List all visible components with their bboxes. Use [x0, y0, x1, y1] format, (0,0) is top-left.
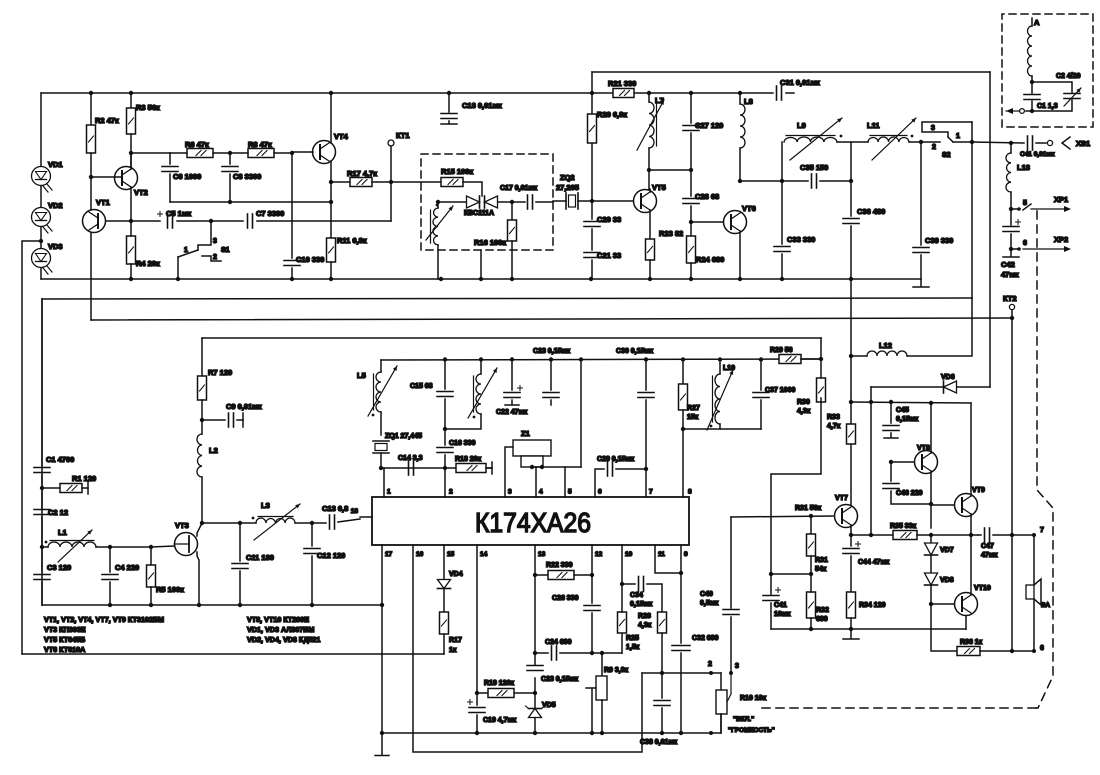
resistor R24 680: [687, 236, 696, 263]
svg-text:VT1, VT2, VT4, VT7, VT9 КТ3102: VT1, VT2, VT4, VT7, VT9 КТ3102БМ: [44, 615, 164, 624]
svg-text:Z1: Z1: [521, 429, 530, 438]
node L1 left: [40, 545, 44, 549]
node VT1 base junction: [129, 219, 133, 223]
svg-text:1к: 1к: [449, 647, 457, 654]
svg-text:C19 4,7мк: C19 4,7мк: [483, 717, 517, 724]
resistor R28 4.3k: [658, 612, 667, 633]
svg-text:XP2: XP2: [1054, 235, 1068, 244]
capacitor C27 120: [690, 93, 692, 123]
svg-text:0,15мк: 0,15мк: [630, 601, 653, 608]
inductor L8: [739, 93, 741, 104]
svg-text:1: 1: [956, 133, 960, 140]
svg-text:ВА: ВА: [1041, 602, 1050, 609]
node C11 tap: [238, 521, 242, 525]
svg-text:R25: R25: [626, 635, 639, 642]
svg-text:C32 680: C32 680: [692, 635, 719, 642]
svg-text:C18 0,01мк: C18 0,01мк: [462, 101, 502, 110]
node VT6 collector tap: [738, 179, 742, 183]
svg-text:R20 6,8к: R20 6,8к: [597, 110, 627, 119]
svg-text:17: 17: [385, 551, 393, 558]
svg-text:L18: L18: [1017, 163, 1030, 172]
capacitor C42 47mk: [1010, 209, 1012, 225]
svg-text:R29 56: R29 56: [770, 347, 793, 354]
resistor R25 1.5k: [621, 633, 623, 653]
wire left column vertical: [41, 299, 43, 605]
svg-text:C45: C45: [896, 407, 909, 414]
svg-text:C1 1,3: C1 1,3: [1037, 103, 1058, 110]
wire R10 top link: [720, 673, 722, 690]
speaker BA1: [1033, 535, 1035, 585]
svg-text:3: 3: [213, 238, 217, 245]
svg-text:R10 10к: R10 10к: [740, 695, 767, 702]
svg-text:47мк: 47мк: [981, 552, 998, 559]
svg-text:VT5 КТ645Б: VT5 КТ645Б: [44, 635, 85, 644]
LED VD2: [40, 186, 42, 207]
resistor R11 6.8k: [327, 238, 336, 262]
svg-text:R6 47к: R6 47к: [185, 140, 209, 149]
svg-text:R2 47к: R2 47к: [95, 116, 119, 125]
node L7 branch: [647, 168, 651, 172]
wire VT3 drain: [197, 523, 202, 536]
connector XP1: [1011, 208, 1019, 210]
wire VT6 emitter to rail: [739, 231, 741, 279]
crystal ZQ1 27445: [380, 412, 382, 435]
variable resistor R10 10k volume: [716, 690, 727, 714]
wire L1 to gate node: [96, 546, 151, 548]
svg-text:R35 33к: R35 33к: [890, 523, 917, 530]
svg-text:XS1: XS1: [1076, 139, 1090, 148]
wire VT4 collector to rail: [330, 93, 332, 143]
svg-text:4: 4: [539, 489, 543, 496]
capacitor C34 0.15mk: [622, 583, 635, 585]
svg-text:L3: L3: [261, 501, 270, 510]
resistor R18 20k: [456, 464, 486, 473]
svg-text:11: 11: [658, 551, 665, 558]
wire S1 pin1 to rail: [177, 257, 179, 279]
transistor VT1: [83, 210, 106, 233]
svg-text:C24 680: C24 680: [545, 639, 572, 646]
node C39 top: [919, 140, 923, 144]
svg-text:C10 330: C10 330: [296, 255, 324, 264]
svg-text:C9 0,01мк: C9 0,01мк: [226, 402, 262, 411]
svg-text:VT8, VT10 КТ209Е: VT8, VT10 КТ209Е: [247, 615, 309, 624]
capacitor C32 680: [672, 645, 690, 647]
wire VT4 base: [292, 151, 313, 153]
svg-text:C22 47мк: C22 47мк: [496, 409, 528, 416]
capacitor C18 0.01mk: [448, 93, 450, 112]
capacitor C2 12: [41, 488, 43, 508]
svg-text:R1 120: R1 120: [72, 474, 96, 483]
svg-text:1: 1: [387, 489, 391, 496]
svg-text:VD2, VD4, VD8 КД521: VD2, VD4, VD8 КД521: [247, 635, 320, 644]
wire antenna line to XS1: [972, 142, 1024, 143]
inductor L6 tunable: [480, 360, 482, 374]
svg-text:27,205: 27,205: [556, 183, 579, 192]
svg-text:R23 82: R23 82: [659, 229, 683, 238]
svg-text:R4 20к: R4 20к: [136, 259, 160, 268]
svg-text:9: 9: [684, 551, 688, 558]
capacitor C36 480: [850, 181, 852, 216]
svg-text:C33 330: C33 330: [787, 235, 815, 244]
resistor R29 56: [779, 355, 801, 364]
end bar below pad 6: [1010, 249, 1012, 256]
dashed module boundary right: [762, 211, 1053, 708]
node S1 tap: [209, 219, 213, 223]
capacitor C46 220: [890, 462, 892, 481]
terminal KT1: [388, 140, 394, 146]
capacitor C13 6.8 to pin 18: [312, 522, 326, 524]
varicap diodes KVS111A: [467, 196, 480, 208]
wire pin11 jog: [655, 545, 681, 573]
inductor L10 tunable: [719, 360, 721, 374]
svg-text:C44 47мк: C44 47мк: [858, 559, 890, 566]
svg-text:12: 12: [595, 551, 603, 558]
svg-text:4,3к: 4,3к: [638, 622, 652, 629]
capacitor C21 33: [584, 252, 600, 254]
wire VT10 emitter link: [965, 616, 967, 629]
wire L7 to C27 node: [649, 169, 691, 171]
node R31 bottom link: [809, 572, 813, 576]
resistor R36 1k: [957, 647, 980, 656]
resistor R8 47k: [248, 149, 274, 158]
capacitor C40 0.5mk: [730, 517, 732, 608]
wire VT3 source: [197, 552, 199, 605]
svg-text:VT10: VT10: [974, 585, 991, 592]
wire R6 feed line: [131, 152, 170, 154]
svg-text:VD1: VD1: [48, 160, 63, 169]
node VT3 drain: [200, 521, 204, 525]
svg-text:КВС111А: КВС111А: [464, 210, 494, 217]
svg-text:VT9: VT9: [972, 487, 985, 494]
svg-text:VT8: VT8: [917, 445, 930, 452]
svg-text:6: 6: [1040, 645, 1044, 652]
svg-text:R28: R28: [638, 613, 651, 620]
capacitor C35 150 series: [782, 180, 808, 182]
svg-text:R5 100к: R5 100к: [156, 585, 184, 594]
svg-text:VD1, VD3 АЛ307БМ: VD1, VD3 АЛ307БМ: [247, 625, 314, 634]
svg-text:4,3к: 4,3к: [797, 408, 811, 415]
svg-text:R16 100к: R16 100к: [474, 238, 506, 247]
capacitor C31 0.01mk: [776, 86, 778, 100]
resistor R33 4.7k: [847, 424, 856, 444]
wire IF filter line: [740, 180, 782, 182]
wire right supply vertical: [989, 72, 991, 387]
transistor VT3 FET: [175, 533, 198, 556]
svg-text:VT4: VT4: [334, 132, 349, 141]
svg-text:VD2: VD2: [48, 201, 63, 210]
crystal ZQ2 27.205: [565, 193, 567, 209]
node C12 tap: [295, 522, 312, 524]
LED VD3: [40, 227, 42, 248]
resistor R27 15k: [682, 360, 684, 384]
svg-text:R24 680: R24 680: [696, 255, 724, 264]
svg-text:7: 7: [1040, 527, 1044, 534]
resistor R23 82 on VT5 emitter: [649, 210, 651, 239]
wire shield ground stub: [480, 250, 482, 279]
svg-text:10: 10: [625, 551, 633, 558]
svg-text:3: 3: [735, 663, 739, 670]
node R8 corner: [290, 151, 294, 155]
capacitor C5 1mk: [167, 214, 169, 228]
capacitor C19 4.7mk: [469, 707, 485, 709]
inductor L1 tunable rod: [42, 546, 48, 548]
transistor VT6: [724, 211, 747, 234]
resistor R6 47k: [187, 149, 213, 158]
capacitor C29 0.15mk to pin6: [595, 469, 604, 497]
svg-text:L2: L2: [209, 446, 218, 455]
wire KT2 vertical down right side: [1011, 318, 1013, 651]
svg-text:R22 330: R22 330: [546, 562, 573, 569]
svg-text:C15 68: C15 68: [410, 383, 433, 390]
svg-text:C7 3300: C7 3300: [256, 209, 284, 218]
svg-text:S1: S1: [221, 247, 230, 254]
svg-text:VT1: VT1: [96, 198, 110, 207]
svg-text:C41: C41: [774, 602, 787, 609]
svg-text:L8: L8: [744, 97, 753, 106]
svg-text:VD8: VD8: [940, 577, 954, 584]
svg-text:ZQ2: ZQ2: [560, 173, 575, 182]
svg-text:XP1: XP1: [1054, 195, 1068, 204]
wire line to R7: [202, 337, 821, 339]
wire bottom ground rail: [382, 732, 711, 734]
svg-text:47мк: 47мк: [1001, 270, 1019, 279]
inductor L18: [1010, 143, 1012, 153]
wire VT8 emitter: [930, 471, 932, 528]
svg-text:VT3: VT3: [175, 521, 189, 530]
svg-text:VD6: VD6: [941, 374, 955, 381]
svg-text:C21 33: C21 33: [597, 251, 621, 260]
capacitor C4 220: [109, 547, 111, 572]
transistor VT2: [115, 167, 138, 190]
svg-text:13: 13: [538, 551, 546, 558]
wire left branch vertical: [591, 72, 593, 201]
zener VD5: [534, 678, 536, 708]
capacitor C20 33: [591, 201, 593, 219]
svg-text:К174ХА26: К174ХА26: [475, 507, 591, 538]
svg-text:R31 56к: R31 56к: [795, 505, 822, 512]
svg-text:1: 1: [184, 247, 188, 254]
transistor VT7: [835, 505, 858, 528]
capacitor C8 3300: [229, 153, 231, 164]
svg-text:C28 68: C28 68: [695, 192, 719, 201]
svg-text:C16 330: C16 330: [449, 440, 476, 447]
wire VT8 collector: [930, 403, 932, 453]
wire pin16 volume feed: [413, 545, 642, 752]
resistor R20 6.8k: [588, 114, 597, 143]
ground bar: [850, 629, 852, 638]
wire top supply rail: [41, 92, 613, 94]
svg-text:ZQ1 27,445: ZQ1 27,445: [385, 433, 422, 440]
svg-text:10мк: 10мк: [774, 611, 791, 618]
inductor L3 tunable: [240, 522, 256, 524]
inductor L11 tunable: [868, 137, 909, 142]
svg-text:C29 0,15мк: C29 0,15мк: [597, 456, 635, 463]
node C8 top: [228, 151, 232, 155]
svg-text:C2 4/20: C2 4/20: [1056, 73, 1081, 80]
svg-text:54к: 54к: [815, 566, 827, 573]
capacitor C17 0.01mk: [527, 195, 529, 209]
capacitor C45 0.15mk: [890, 402, 892, 423]
wire volume line: [642, 672, 721, 674]
svg-text:C39 330: C39 330: [925, 236, 953, 245]
svg-text:C3 120: C3 120: [47, 563, 71, 572]
svg-text:C46 220: C46 220: [896, 490, 923, 497]
svg-text:8: 8: [688, 489, 692, 496]
svg-text:R27: R27: [687, 405, 700, 412]
resistor R30 4.3k: [820, 338, 822, 378]
svg-text:7: 7: [649, 489, 653, 496]
transistor VT9: [955, 494, 978, 517]
capacitor C38 0.01mk: [661, 673, 663, 698]
svg-text:R8 47к: R8 47к: [248, 140, 272, 149]
resistor R35 33k: [893, 531, 917, 540]
svg-text:C31 0,01мк: C31 0,01мк: [780, 78, 820, 87]
svg-text:C23 0,15мк: C23 0,15мк: [533, 348, 571, 355]
wire VT9 base: [931, 504, 954, 506]
wire VT5 base: [592, 200, 633, 202]
resistor R19 120k: [477, 692, 488, 694]
svg-text:3: 3: [931, 125, 935, 132]
svg-text:C23 0,15мк: C23 0,15мк: [541, 676, 579, 683]
svg-text:L11: L11: [867, 121, 880, 130]
svg-text:VT2: VT2: [134, 188, 148, 197]
svg-text:R30: R30: [797, 399, 810, 406]
svg-text:R17: R17: [449, 637, 462, 644]
capacitor C11 180: [239, 523, 241, 561]
svg-text:C20 33: C20 33: [597, 215, 621, 224]
svg-text:C37 1000: C37 1000: [765, 387, 795, 394]
wire top rail stub after C31: [786, 92, 794, 94]
wire VT2 emitter to R4: [130, 187, 132, 221]
wire VT5 collector: [649, 189, 651, 192]
wire tuner ground rail: [42, 604, 382, 606]
node pad 6: [1009, 247, 1013, 251]
capacitor C47 47mk: [978, 534, 981, 536]
resistor R16 100k: [511, 202, 513, 220]
node R33 top: [849, 400, 853, 404]
wire KT1 vertical: [390, 146, 392, 221]
wire L11 to S2: [909, 141, 921, 143]
capacitor C37 1000: [760, 360, 762, 390]
wire R2 to VT1 top: [90, 177, 92, 210]
svg-text:2: 2: [708, 661, 712, 668]
wire bottom rail of RF section: [41, 278, 921, 280]
svg-text:VT6: VT6: [742, 204, 756, 213]
wire VD8 to R36: [931, 604, 957, 651]
wire VT6 base: [691, 221, 723, 223]
svg-text:VT6 КТ610А: VT6 КТ610А: [44, 645, 85, 654]
node pad 6 speaker: [1032, 649, 1036, 653]
svg-text:R11 6,8к: R11 6,8к: [337, 236, 367, 245]
dashed antenna box: [1002, 14, 1093, 127]
svg-text:R31: R31: [815, 557, 828, 564]
svg-text:14: 14: [480, 551, 488, 558]
svg-text:3: 3: [508, 489, 512, 496]
node R1 tap: [40, 486, 44, 490]
svg-text:КТ2: КТ2: [1003, 294, 1017, 303]
svg-text:R9 3,9к: R9 3,9к: [604, 667, 629, 674]
svg-text:C34: C34: [630, 592, 643, 599]
resistor R7 120: [201, 338, 203, 376]
svg-text:L9: L9: [797, 121, 806, 130]
svg-text:VD7: VD7: [940, 547, 954, 554]
wire pin1 line: [381, 467, 492, 469]
capacitor C41a 10mk: [770, 574, 772, 594]
svg-text:R19 120к: R19 120к: [484, 680, 514, 687]
resistor R12 1k: [443, 589, 445, 612]
capacitor C7 3300: [211, 220, 243, 222]
node R3 bottom feed: [129, 151, 133, 155]
dashed FM oscillator box: [421, 154, 553, 250]
svg-text:C11 180: C11 180: [246, 553, 274, 562]
svg-text:C42: C42: [1001, 260, 1015, 269]
wire varicap left to coil: [438, 201, 466, 203]
svg-text:C36 480: C36 480: [857, 207, 885, 216]
svg-text:VT7: VT7: [835, 495, 848, 502]
inductor L9 tunable: [781, 142, 783, 181]
filter Z1: [513, 440, 551, 456]
svg-text:15: 15: [447, 551, 455, 558]
svg-text:6: 6: [1023, 240, 1027, 247]
svg-text:5: 5: [1023, 200, 1027, 207]
wire VT3 gate: [151, 546, 174, 547]
wire VD3 to bottom rail: [40, 268, 42, 279]
LED VD1: [40, 93, 42, 166]
wire pin13 vertical: [534, 545, 536, 665]
svg-text:"ГРОМКОСТЬ": "ГРОМКОСТЬ": [728, 727, 775, 734]
svg-text:C41 0,01мк: C41 0,01мк: [1020, 151, 1055, 158]
arrow to antenna jack: [1030, 109, 1034, 113]
switch S2: [921, 141, 940, 143]
capacitor C25 0.15mk: [527, 665, 543, 667]
resistor R21 330 in rail: [613, 89, 634, 98]
node pad 5: [1009, 207, 1013, 211]
svg-text:S2: S2: [942, 152, 951, 159]
svg-text:VD5: VD5: [542, 702, 556, 709]
svg-text:C1 4700: C1 4700: [46, 455, 74, 464]
resistor R34 120: [847, 592, 856, 618]
node VT2 base: [89, 175, 93, 179]
capacitor C26 330: [590, 573, 594, 577]
inductor L12: [851, 355, 867, 357]
node pin2 drop: [443, 466, 447, 470]
pin 18 stub: [360, 516, 372, 518]
svg-text:C6 1000: C6 1000: [173, 172, 201, 181]
wire mixer line to L3: [202, 522, 240, 524]
connector XP2: [1011, 248, 1019, 250]
capacitor C24 680 line: [535, 652, 548, 654]
wire AGC return line: [22, 653, 444, 655]
wire pin14 vertical: [476, 545, 478, 705]
svg-text:16: 16: [416, 551, 424, 558]
switch S1: [198, 221, 211, 250]
transistor VT5: [634, 190, 657, 213]
wire VT4 emitter chain: [330, 161, 332, 238]
svg-text:2: 2: [449, 489, 453, 496]
wire pin17 vertical: [381, 545, 383, 755]
svg-text:C14 3,3: C14 3,3: [398, 455, 423, 462]
wire S2 supply vertical: [971, 122, 973, 298]
inductor L2: [201, 420, 203, 434]
svg-text:4,7к: 4,7к: [827, 423, 841, 430]
variable resistor R9 3.9k: [601, 653, 603, 676]
resistor R32 680: [807, 592, 816, 618]
wire VT1 emitter down to AGC line: [90, 233, 92, 320]
svg-text:6: 6: [598, 489, 602, 496]
svg-text:C35 150: C35 150: [800, 163, 828, 172]
svg-text:R36 1к: R36 1к: [960, 639, 983, 646]
wire AGC line B from VT1: [91, 318, 1012, 320]
